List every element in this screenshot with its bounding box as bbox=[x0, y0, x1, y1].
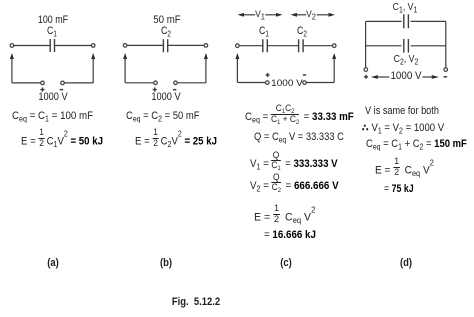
circuit (a) right terminal node bbox=[91, 44, 95, 48]
equation c4: V2 = Q/C2 = 666.666 V bbox=[250, 177, 339, 195]
battery - polarity mark (b) bbox=[173, 89, 176, 91]
circuit (d) right vertical wire bbox=[445, 21, 447, 67]
V2 span arrow right head bbox=[329, 13, 336, 17]
circuit (b) battery - terminal node bbox=[174, 81, 178, 85]
capacitor C1 plates (parallel top) bbox=[404, 14, 409, 28]
circuit (d) middle branch wire bbox=[366, 45, 446, 47]
capacitor C1 plates bbox=[50, 39, 54, 52]
label 1000 V (b) bbox=[151, 92, 180, 103]
battery + polarity mark (b) bbox=[153, 88, 157, 92]
circuit (d) voltage arrow right head bbox=[432, 75, 439, 79]
circuit (b) battery + terminal node bbox=[154, 81, 158, 85]
label C2, V2 (d) bbox=[394, 55, 419, 65]
equation c5: E = 1/2 Ceq V^2 bbox=[254, 208, 315, 227]
circuit (a) left terminal node bbox=[10, 44, 14, 48]
circuit (a) right vertical wire bbox=[92, 59, 94, 83]
circuit (c) left vertical wire bbox=[236, 59, 238, 83]
battery - polarity mark (d) bbox=[444, 76, 448, 78]
equation c6: = 16.666 kJ bbox=[264, 230, 316, 241]
equation b2: E = 1/2 C2 V^2 = 25 kJ bbox=[135, 132, 217, 151]
circuit (b) left vertical wire bbox=[124, 59, 126, 83]
circuit (a) left current arrow bbox=[10, 53, 14, 59]
equation d2: therefore V1 = V2 = 1000 V bbox=[361, 122, 444, 134]
circuit (a) right current arrow bbox=[91, 53, 95, 59]
equation c3: V1 = Q/C1 = 333.333 V bbox=[250, 155, 338, 173]
circuit (d) top branch wire bbox=[366, 20, 446, 22]
V2 span arrow left head bbox=[291, 13, 298, 17]
equation a2: E = 1/2 C1 V^2 = 50 kJ bbox=[21, 132, 103, 151]
label 100 mF bbox=[38, 15, 68, 26]
equation d4: E = 1/2 Ceq V^2 bbox=[375, 161, 434, 180]
circuit (c) right terminal node bbox=[332, 44, 336, 48]
circuit (c) right vertical wire bbox=[333, 59, 335, 83]
equation b1: Ceq = C2 = 50 mF bbox=[126, 111, 200, 122]
circuit (b) right vertical wire bbox=[205, 59, 207, 83]
label C2 (c) bbox=[297, 26, 307, 37]
label C1 (a) bbox=[47, 26, 57, 37]
label C1 (c) bbox=[259, 26, 269, 37]
circuit (a) top wire bbox=[14, 45, 91, 47]
circuit (d) left terminal node bbox=[364, 68, 368, 72]
equation c2: Q = Ceq V = 33.333 C bbox=[254, 132, 344, 143]
circuit (d) left vertical wire bbox=[365, 21, 367, 67]
battery - polarity mark (a) bbox=[60, 89, 63, 91]
equation d1: V is same for both bbox=[365, 106, 439, 117]
label V1 span bbox=[255, 10, 265, 20]
capacitor C2 plates (series) bbox=[299, 39, 304, 52]
V1 span arrow right line bbox=[265, 14, 276, 16]
circuit (d) right terminal node bbox=[444, 68, 448, 72]
caption (d) bbox=[400, 258, 412, 269]
circuit (b) bottom wire bbox=[125, 82, 206, 84]
V1 span arrow left line bbox=[244, 14, 256, 16]
circuit (b) left current arrow bbox=[123, 53, 127, 59]
circuit (c) top wire bbox=[239, 45, 332, 47]
battery + polarity mark (a) bbox=[40, 88, 44, 92]
circuit (c) battery + terminal node bbox=[266, 81, 270, 85]
circuit (d) voltage arrow left line bbox=[377, 76, 390, 78]
capacitor C2 plates (parallel bottom) bbox=[404, 39, 409, 53]
label 1000 V (c) bbox=[272, 79, 304, 89]
circuit (c) left terminal node bbox=[236, 44, 240, 48]
label 50 mF bbox=[153, 15, 180, 26]
V2 span arrow right line bbox=[317, 14, 329, 16]
circuit (b) left terminal node bbox=[123, 44, 127, 48]
label C1, V1 (d) bbox=[393, 3, 418, 13]
capacitor C1 plates (series) bbox=[263, 39, 268, 52]
V2 span arrow left line bbox=[297, 14, 307, 16]
circuit (d) voltage arrow left head bbox=[371, 75, 378, 79]
label 1000 V (a) bbox=[38, 92, 67, 103]
label 1000 V (d) bbox=[390, 71, 421, 82]
label V2 span bbox=[306, 10, 316, 20]
equation c1: Ceq = C1C2/(C1+C2) = 33.33 mF bbox=[245, 108, 354, 126]
label C2 (b) bbox=[161, 26, 171, 37]
circuit (a) bottom wire bbox=[12, 82, 93, 84]
circuit (b) right terminal node bbox=[204, 44, 208, 48]
caption (a) bbox=[47, 258, 59, 269]
equation a1: Ceq = C1 = 100 mF bbox=[12, 111, 93, 122]
V1 span arrow left head bbox=[238, 13, 245, 17]
V1 span arrow right head bbox=[276, 13, 283, 17]
circuit (a) left vertical wire bbox=[11, 59, 13, 83]
equation d5: = 75 kJ bbox=[384, 184, 414, 195]
equation d3: Ceq = C1 + C2 = 150 mF bbox=[366, 139, 467, 150]
capacitor C2 plates bbox=[163, 39, 167, 52]
circuit (c) right current arrow bbox=[332, 53, 336, 59]
caption (b) bbox=[160, 258, 172, 269]
circuit (c) left current arrow bbox=[235, 53, 239, 59]
battery + polarity mark (c) bbox=[266, 73, 270, 77]
figure caption Fig. 5.12.2 bbox=[171, 297, 219, 308]
circuit (a) battery + terminal node bbox=[41, 81, 45, 85]
circuit (c) battery - terminal node bbox=[303, 81, 307, 85]
circuit (b) top wire bbox=[127, 44, 204, 46]
battery + polarity mark (d) bbox=[364, 75, 368, 79]
battery - polarity mark (c) bbox=[303, 74, 306, 76]
circuit (a) battery - terminal node bbox=[61, 81, 65, 85]
circuit (d) voltage arrow right line bbox=[423, 76, 434, 78]
caption (c) bbox=[280, 258, 292, 269]
circuit (b) right current arrow bbox=[204, 53, 208, 59]
circuit (c) bottom wire bbox=[237, 82, 334, 84]
